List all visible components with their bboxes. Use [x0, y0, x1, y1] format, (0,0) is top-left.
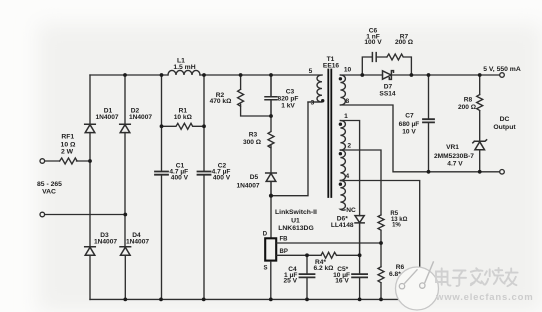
junction bottom C2	[202, 298, 206, 302]
wire secondary output line	[340, 74, 499, 76]
svg-text:4: 4	[345, 173, 349, 180]
svg-text:1N4007: 1N4007	[95, 114, 118, 121]
svg-text:1.5 mH: 1.5 mH	[173, 64, 195, 71]
svg-text:NC: NC	[346, 207, 356, 214]
svg-text:2: 2	[347, 143, 351, 150]
junction bottom U1	[269, 298, 273, 302]
svg-text:25 V: 25 V	[284, 278, 298, 285]
diode D1	[85, 124, 96, 132]
diode D5	[266, 173, 277, 196]
transformer T1 winding 4-NC	[340, 181, 345, 211]
svg-text:85 - 265: 85 - 265	[37, 181, 62, 188]
svg-text:5: 5	[309, 68, 313, 75]
junction C7 bottom	[427, 170, 431, 174]
svg-text:10 V: 10 V	[402, 129, 416, 136]
svg-text:SS14: SS14	[379, 90, 395, 97]
svg-text:VR1: VR1	[446, 144, 459, 151]
svg-text:RF1: RF1	[61, 134, 74, 141]
junction snubber left	[360, 73, 364, 77]
transformer T1 primary winding	[308, 75, 322, 102]
resistor RF1	[60, 158, 78, 164]
phase dot winding 4	[339, 183, 342, 186]
capacitor C4	[300, 274, 315, 277]
svg-text:DC: DC	[500, 116, 510, 123]
svg-text:680 µF: 680 µF	[399, 121, 420, 128]
terminal output plus	[500, 73, 505, 78]
junction bottom C5	[358, 298, 362, 302]
junction R1 left	[160, 124, 164, 128]
wire pin2 to R5	[340, 150, 381, 215]
resistor R7	[387, 54, 403, 60]
svg-text:LNK613DG: LNK613DG	[278, 225, 314, 232]
svg-text:1N4007: 1N4007	[129, 114, 152, 121]
resistor R8	[477, 95, 483, 111]
junction rail R2	[239, 73, 243, 77]
svg-text:3: 3	[311, 99, 315, 106]
zener VR1	[473, 140, 487, 150]
transformer T1 core	[328, 70, 331, 198]
junction VR1 bottom	[478, 170, 482, 174]
svg-text:Output: Output	[493, 124, 516, 131]
watermark logo circle	[396, 261, 439, 310]
junction BP C5	[358, 253, 362, 257]
wire C7 column	[428, 75, 430, 172]
svg-text:LL4148: LL4148	[331, 222, 354, 229]
resistor R1	[162, 123, 205, 129]
svg-text:100 V: 100 V	[364, 39, 382, 46]
svg-text:C7: C7	[405, 113, 414, 120]
junction C7 top	[427, 73, 431, 77]
junction rail C2	[202, 73, 206, 77]
wire R8 VR1 column	[479, 75, 481, 172]
wire node A column	[89, 75, 91, 299]
svg-text:6.2 kΩ: 6.2 kΩ	[314, 265, 335, 272]
junction R8 top	[478, 73, 482, 77]
svg-text:10 Ω: 10 Ω	[61, 141, 76, 148]
svg-text:200 Ω: 200 Ω	[395, 39, 414, 46]
junction FB divider	[379, 241, 383, 245]
resistor R2	[238, 75, 271, 116]
junction R1 right	[202, 124, 206, 128]
svg-text:470 kΩ: 470 kΩ	[210, 98, 233, 105]
junction BP C4	[305, 253, 309, 257]
svg-text:1N4007: 1N4007	[126, 239, 149, 246]
svg-text:400 V: 400 V	[213, 174, 231, 181]
diode D6	[355, 216, 364, 256]
junction rail C3	[269, 73, 273, 77]
resistor R6	[378, 267, 384, 300]
svg-text:400 V: 400 V	[171, 174, 189, 181]
transformer T1 secondary winding 10-8	[340, 75, 345, 105]
transformer T1 bias winding 1-2	[340, 121, 345, 151]
wire U1 source pin	[270, 262, 272, 300]
wire drain to U1	[270, 196, 272, 238]
svg-text:BP: BP	[280, 249, 288, 255]
svg-text:16 V: 16 V	[335, 278, 349, 285]
junction bottom C4	[305, 298, 309, 302]
resistor R4	[321, 252, 337, 258]
wire bottom rail	[90, 298, 420, 300]
wire BP line	[277, 254, 360, 256]
svg-text:www.elecfans.com: www.elecfans.com	[435, 292, 533, 303]
capacitor C1	[155, 172, 168, 175]
svg-text:R3: R3	[249, 132, 258, 139]
wire input line N	[45, 214, 126, 216]
phase dot winding 1	[339, 123, 342, 126]
wire C1 column	[161, 75, 163, 299]
phase dot winding 2	[339, 152, 342, 155]
svg-text:D5: D5	[250, 174, 259, 181]
junction snubber right	[410, 73, 414, 77]
capacitor C2	[198, 172, 211, 175]
svg-text:FB: FB	[280, 236, 289, 242]
svg-text:C3: C3	[286, 88, 295, 95]
junction bottom D4	[123, 298, 127, 302]
svg-text:10 kΩ: 10 kΩ	[174, 114, 193, 121]
wire top rail	[90, 74, 322, 76]
svg-text:D: D	[263, 231, 268, 237]
junction N-D4	[123, 213, 127, 217]
capacitor C7	[423, 119, 434, 122]
svg-text:LinkSwitch-II: LinkSwitch-II	[275, 209, 317, 216]
svg-text:820 pF: 820 pF	[278, 96, 299, 103]
resistor R5	[378, 215, 384, 243]
svg-text:4.7 V: 4.7 V	[447, 161, 463, 168]
wire input line L	[45, 160, 90, 162]
svg-text:VAC: VAC	[42, 188, 56, 195]
diode D2	[120, 124, 131, 132]
resistor R3	[268, 116, 274, 173]
phase dot secondary 10	[339, 77, 342, 80]
svg-text:300 Ω: 300 Ω	[243, 139, 262, 146]
capacitor C5	[352, 274, 367, 277]
watermark text elecfans	[436, 268, 518, 286]
wire FB line	[277, 242, 381, 244]
wire drain node to pin 3	[271, 102, 322, 196]
svg-text:1N4007: 1N4007	[236, 182, 259, 189]
svg-text:S: S	[264, 265, 268, 271]
svg-text:2MM5230B-7: 2MM5230B-7	[434, 153, 474, 160]
wire C4 column	[306, 255, 308, 299]
wire FB node down	[380, 243, 382, 267]
terminal input bottom	[40, 212, 45, 217]
svg-text:R8: R8	[464, 97, 473, 104]
wire node B column	[124, 75, 126, 299]
junction RF1-D1	[88, 159, 92, 163]
wire C2 column	[203, 75, 205, 299]
svg-text:8: 8	[345, 98, 349, 105]
op-amp U1 LNK613DG body	[265, 238, 276, 260]
terminal output minus	[500, 170, 505, 175]
transformer T1 bias winding 2-4	[340, 150, 345, 180]
svg-text:200 Ω: 200 Ω	[458, 104, 477, 111]
junction bottom R6	[379, 298, 383, 302]
svg-text:1 kV: 1 kV	[281, 103, 295, 110]
wire snubber branch	[362, 57, 411, 75]
wire pin1 to D6	[340, 121, 359, 216]
capacitor C6	[372, 53, 376, 62]
svg-text:1N4007: 1N4007	[94, 239, 117, 246]
svg-text:1%: 1%	[392, 223, 401, 229]
junction rail C1	[160, 73, 164, 77]
svg-text:EE16: EE16	[323, 63, 339, 70]
junction rail D2	[123, 73, 127, 77]
svg-text:10: 10	[344, 67, 352, 74]
capacitor C3	[265, 75, 277, 116]
svg-text:5 V, 550 mA: 5 V, 550 mA	[483, 66, 521, 73]
svg-text:U1: U1	[291, 218, 300, 225]
wire pin8 to output return	[340, 105, 499, 172]
junction clamp bottom	[269, 114, 273, 118]
svg-text:2 W: 2 W	[61, 148, 74, 155]
diode D4	[120, 247, 131, 255]
phase dot primary	[321, 99, 324, 102]
diode D3	[85, 247, 96, 255]
terminal input top	[40, 159, 45, 164]
wire C5 column	[359, 255, 361, 299]
inductor L1	[168, 70, 200, 75]
junction drain node	[269, 194, 273, 198]
junction bottom C1	[159, 298, 163, 302]
wire pin4 return	[340, 181, 419, 300]
svg-text:1: 1	[344, 113, 348, 120]
diode D7	[383, 71, 394, 80]
